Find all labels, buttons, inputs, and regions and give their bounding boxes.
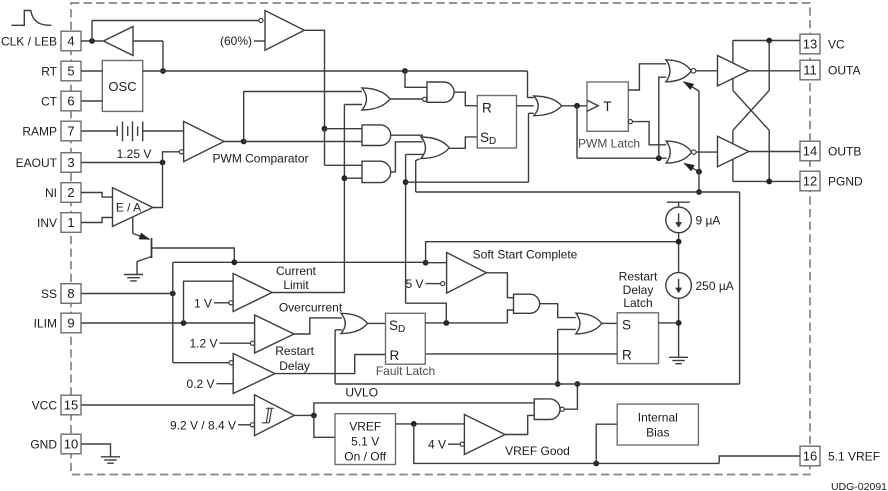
wire 60% to AND2 [325, 128, 363, 130]
supply bar 9uA [667, 201, 690, 203]
wire GND pin [81, 444, 111, 457]
clock mark of T latch [587, 100, 598, 111]
svg-text:E / A: E / A [116, 201, 141, 215]
svg-text:2: 2 [67, 185, 74, 200]
wire 1.2V stub [220, 342, 251, 344]
svg-text:ILIM: ILIM [34, 316, 57, 330]
svg-text:11: 11 [803, 63, 817, 78]
svg-text:Current: Current [276, 264, 317, 278]
svg-text:RAMP: RAMP [22, 124, 57, 138]
node UVLO junction [311, 413, 317, 419]
node disable junction [696, 169, 702, 175]
svg-text:PGND: PGND [828, 174, 863, 188]
wire inverter input [133, 40, 163, 42]
node SS junction [170, 291, 176, 297]
svg-text:VCC: VCC [32, 398, 58, 412]
wire RT to OSC [81, 70, 102, 72]
wire UVLO to OR4 [335, 329, 342, 331]
wire fault to OR3 bottom [529, 112, 534, 114]
transistor Q-clamp base bar [151, 238, 153, 258]
wire 9.2V stub [238, 424, 250, 426]
svg-text:0.2 V: 0.2 V [186, 377, 214, 391]
svg-text:VC: VC [828, 37, 845, 51]
svg-text:PWM Latch: PWM Latch [578, 136, 640, 150]
pin 5 (RT) [61, 61, 81, 81]
svg-text:250 µA: 250 µA [696, 279, 734, 293]
pin 16 (5.1 VREF) [800, 446, 820, 466]
node CL branch to AND3 [342, 175, 348, 181]
ground (restart delay) [669, 356, 688, 358]
node toggle branch [574, 103, 580, 109]
wire RDL R input [425, 353, 617, 355]
wire AND2 output [391, 135, 423, 140]
wire clamp collector [152, 248, 235, 262]
wire 60% down [324, 129, 326, 166]
or-gate OR5 [576, 313, 602, 334]
latch U-FL (Fault Latch) [386, 313, 426, 364]
or-gate OR1 [362, 88, 390, 110]
comparator U-60 (60% dead-time) [265, 11, 304, 51]
bubble UVLO inverting input [250, 423, 254, 427]
svg-text:1.2 V: 1.2 V [189, 337, 217, 351]
svg-text:R: R [622, 347, 632, 362]
wire OUTB [749, 151, 800, 153]
pin 2 (NI) [61, 183, 81, 203]
wire SS pin [81, 293, 173, 295]
arrow clamp emitter [139, 233, 150, 239]
svg-text:Delay: Delay [279, 359, 310, 373]
node restart junction [676, 320, 682, 326]
svg-text:10: 10 [64, 437, 78, 452]
wire fault out up [406, 303, 447, 323]
comparator U-CL (Current Limit) [233, 274, 272, 312]
node internal bias junction [593, 461, 599, 467]
svg-text:CLK / LEB: CLK / LEB [1, 34, 57, 48]
svg-text:R: R [482, 101, 492, 116]
pin 13 (VC) [800, 34, 820, 54]
svg-text:5 V: 5 V [405, 277, 423, 291]
svg-text:Delay: Delay [623, 283, 654, 297]
ground (E/A clamp) [124, 274, 143, 276]
pin 14 (OUTB) [800, 141, 820, 161]
latch U-RDL (Restart Delay Latch) [617, 313, 658, 364]
bubble SSC inverting input [441, 282, 445, 286]
clock waveform icon [12, 11, 52, 26]
nor-gate NOR2 [666, 141, 691, 163]
driver U-B [718, 136, 749, 167]
wire EA to clamp transistor [132, 217, 134, 233]
wire OC output [294, 318, 342, 334]
wire ILIM pin [81, 322, 255, 324]
svg-text:Internal: Internal [638, 411, 678, 425]
wire fault net horizontal [406, 181, 529, 183]
wire VC right drop [768, 41, 770, 91]
wire clamp emitter diagonal [133, 234, 150, 240]
svg-text:Restart: Restart [619, 270, 658, 284]
node VC junction [766, 38, 772, 44]
svg-text:CT: CT [41, 94, 58, 108]
bubble PWM inverting input [179, 150, 183, 154]
wire fault latch output [425, 322, 507, 324]
battery 1.25 V plates [116, 126, 118, 136]
wire OR5 output [602, 322, 618, 324]
driver U-A [718, 56, 749, 87]
wire VCC pin [81, 404, 255, 406]
svg-text:RT: RT [41, 64, 57, 78]
svg-text:6: 6 [67, 94, 74, 109]
bubble RD inverting input [229, 361, 233, 365]
svg-text:8: 8 [67, 286, 74, 301]
pin 8 (SS) [61, 284, 81, 304]
or-gate OR3 [534, 96, 562, 116]
wire driver A bottom [732, 78, 734, 90]
pin 4 (CLK / LEB) [61, 31, 81, 51]
wire clock to blank AND [405, 71, 427, 87]
wire UVLO output [294, 414, 314, 416]
svg-text:9 µA: 9 µA [696, 213, 721, 227]
svg-text:(60%): (60%) [220, 34, 252, 48]
wire T Qbar to NOR2 [633, 122, 667, 145]
wire PWM output to AND2 [244, 141, 362, 143]
nand-gate U-NAND [534, 399, 560, 420]
and-gate AND6 [514, 294, 540, 313]
wire fault bus riser [739, 192, 741, 384]
node clock branch [402, 68, 408, 74]
wire VC rail [733, 40, 800, 42]
op-amp U-EA (E / A) [113, 188, 153, 227]
ground (GND pin) [101, 456, 120, 458]
wire PGND rail [733, 180, 800, 182]
wire SS to 9uA [426, 242, 679, 263]
svg-text:Bias: Bias [646, 426, 669, 440]
svg-text:R: R [390, 348, 400, 363]
svg-text:VREF Good: VREF Good [505, 444, 570, 458]
or-gate OR4 [341, 313, 368, 333]
wire OR4 output [368, 322, 386, 324]
svg-text:Restart: Restart [275, 344, 314, 358]
current source I-250uA [666, 273, 692, 299]
wire disable vertical [698, 91, 700, 192]
wire SS upper run [173, 261, 426, 263]
svg-text:3: 3 [67, 155, 74, 170]
bubble OC inverting input [250, 341, 254, 345]
block Internal Bias [617, 404, 698, 445]
wire cross diag 1 [733, 91, 769, 131]
svg-text:OUTB: OUTB [828, 144, 861, 158]
pin 6 (CT) [61, 91, 81, 111]
wire CLK top run [92, 20, 259, 22]
comparator U-UVLO [255, 395, 295, 436]
flip-flop U-T (PWM Latch) [587, 82, 628, 131]
wire EAOUT [81, 162, 163, 164]
wire PGND right drop [768, 130, 770, 181]
wire PWM output up [244, 92, 362, 142]
wire OR2 output to S_D [449, 137, 477, 148]
svg-text:S: S [622, 317, 631, 332]
wire 250uA down [678, 298, 680, 357]
wire toggle down [576, 106, 578, 158]
svg-text:1 V: 1 V [194, 296, 212, 310]
wire CL to OR1 [344, 104, 362, 106]
wire T Q output [628, 64, 666, 90]
bubble 60% inverting input [259, 18, 263, 22]
wire fault latch out to AND6 [507, 310, 513, 323]
wire SS to RD comp [173, 362, 229, 364]
pin 15 (VCC) [61, 395, 81, 415]
wire AND3 output [391, 142, 423, 172]
wire UVLO to VREF box [314, 415, 335, 437]
svg-text:NI: NI [45, 186, 57, 200]
node PGND junction [766, 179, 772, 185]
pin 3 (EAOUT) [61, 153, 81, 173]
wire CL to AND3 [344, 177, 362, 179]
svg-text:12: 12 [803, 174, 817, 189]
comparator U-OC (Overcurrent) [255, 315, 294, 353]
hysteresis mark [262, 408, 274, 423]
svg-text:5.1 VREF: 5.1 VREF [828, 449, 880, 463]
svg-text:4 V: 4 V [428, 438, 446, 452]
svg-text:7: 7 [67, 124, 74, 139]
wire 4V stub [448, 443, 460, 445]
wire NAND output [564, 384, 577, 409]
wire EAOUT up to bubble [163, 152, 180, 163]
svg-text:1.25 V: 1.25 V [117, 147, 152, 161]
wire clamp to ground diagonal [137, 257, 152, 262]
node UVLO OR5 junction [555, 381, 561, 387]
node NAND out junction [575, 381, 581, 387]
wire INV input [81, 218, 113, 223]
wire OR3 output [562, 105, 587, 107]
svg-text:9: 9 [67, 316, 74, 331]
pin 9 (ILIM) [61, 313, 81, 333]
svg-text:UVLO: UVLO [345, 386, 378, 400]
wire PWM comp output [224, 141, 244, 143]
block VREF 5.1V On/Off [335, 414, 396, 465]
comparator U-RD (Restart Delay) [233, 354, 275, 394]
pin 1 (INV) [61, 213, 81, 233]
wire EA output up [153, 163, 163, 208]
svg-text:13: 13 [803, 37, 817, 52]
svg-text:1: 1 [67, 215, 74, 230]
wire NOR1 output [696, 70, 718, 72]
and-gate U-blank (with inverted input) [427, 82, 454, 102]
wire inverter input drop [162, 41, 164, 71]
wire 1V stub [214, 302, 229, 304]
wire OUTA [749, 70, 800, 72]
wire CL output [272, 105, 344, 293]
wire SS vertical [172, 262, 174, 362]
node disable to fault bus [696, 189, 702, 195]
arrow into NOR1 [684, 82, 700, 91]
arrow into NOR2 [684, 163, 699, 171]
svg-text:OUTA: OUTA [828, 63, 860, 77]
node VREF junction [411, 421, 417, 427]
wire to driver B top [732, 130, 734, 144]
wire PWM signal run [577, 157, 667, 159]
wire VREF output [396, 423, 465, 425]
svg-text:4: 4 [67, 34, 74, 49]
node SS comp junction [423, 260, 429, 266]
svg-text:On / Off: On / Off [344, 449, 386, 463]
wire SS to comp [426, 262, 447, 264]
svg-text:5: 5 [67, 64, 74, 79]
inverter U-clk (to CLK/LEB pin) [104, 27, 134, 56]
node fault net junction [403, 179, 409, 185]
wire SSC output [486, 273, 513, 298]
svg-text:Overcurrent: Overcurrent [279, 300, 343, 314]
node PWM signal branch [656, 155, 662, 161]
wire VG output [505, 415, 534, 434]
wire AND6 output [540, 304, 576, 318]
wire (60%) stub [254, 40, 265, 42]
wire 5.1V run [414, 424, 719, 464]
wire latch output [517, 105, 534, 107]
wire pin4 to inverter [81, 40, 103, 42]
wire OSC clock run [143, 70, 405, 72]
wire NI input [81, 193, 113, 198]
svg-text:9.2 V / 8.4 V: 9.2 V / 8.4 V [170, 418, 236, 432]
wire blank AND output to R [454, 92, 477, 106]
current source I-9uA [666, 207, 692, 233]
wire VC left drop [732, 41, 734, 64]
node 9uA junction [676, 239, 682, 245]
wire CLK up [91, 21, 93, 42]
wire cross diag 2 [733, 91, 769, 131]
wire RDL S output [659, 322, 679, 324]
and-gate AND3 [362, 161, 391, 182]
node EAOUT junction [160, 160, 166, 166]
svg-text:15: 15 [64, 398, 78, 413]
pin 12 (PGND) [800, 171, 820, 191]
latch U-RS (R / S_D) [477, 96, 516, 149]
pin 7 (RAMP) [61, 121, 81, 141]
node CLK junction [89, 38, 95, 44]
wire fault net vertical (OR2 input) [405, 154, 407, 303]
svg-text:GND: GND [30, 437, 57, 451]
svg-text:16: 16 [803, 449, 817, 464]
wire 60% output [304, 30, 324, 128]
oscillator OSC box [102, 61, 142, 112]
pin 10 (GND) [61, 434, 81, 454]
bubble T Qbar [628, 120, 632, 124]
svg-text:Limit: Limit [283, 278, 309, 292]
wire 0.2V stub [217, 383, 234, 385]
svg-text:PWM Comparator: PWM Comparator [212, 151, 308, 165]
wire ILIM up to current limit comp [184, 281, 234, 323]
nor-gate NOR1 [666, 60, 691, 82]
wire UVLO to OR5 [558, 328, 576, 330]
wire NOR2 output [696, 151, 717, 153]
wire clamp ground drop [136, 262, 138, 275]
wire RD output [275, 355, 386, 374]
wire OR2 fourth input stub [416, 159, 420, 192]
wire 5.1V to pin16 [719, 456, 800, 463]
svg-text:EAOUT: EAOUT [16, 156, 58, 170]
bubble blanking AND inverted input [423, 97, 427, 101]
bubble CL inverting input [229, 301, 233, 305]
wire 5V stub [426, 283, 441, 285]
wire 60% to AND3 [325, 164, 363, 166]
svg-text:Fault Latch: Fault Latch [376, 364, 435, 378]
wire battery to PWM comparator [143, 130, 184, 132]
svg-text:14: 14 [803, 144, 817, 159]
svg-text:UDG-02091: UDG-02091 [831, 481, 887, 491]
node fault latch out junction [443, 320, 449, 326]
node 60% branch [322, 126, 328, 132]
node SS clamp junction [231, 259, 237, 265]
wire OR2 third input [406, 153, 424, 155]
node OSC output junction [160, 68, 166, 74]
svg-text:SS: SS [41, 287, 57, 301]
node ILIM junction [181, 320, 187, 326]
svg-text:T: T [603, 99, 611, 114]
bubble VG inverting input [460, 442, 464, 446]
wire UVLO top run [314, 403, 534, 416]
wire CT to OSC [81, 100, 102, 102]
svg-text:INV: INV [37, 216, 57, 230]
wire to internal bias [596, 424, 617, 463]
wire clock down to OR3 [528, 71, 534, 98]
wire RAMP to battery [81, 130, 117, 132]
and-gate AND2 [362, 125, 391, 146]
comparator U-PWM [184, 121, 224, 161]
wire clock run right [405, 70, 528, 72]
svg-text:VREF: VREF [349, 419, 381, 433]
svg-text:5.1 V: 5.1 V [351, 434, 379, 448]
svg-text:Soft Start Complete: Soft Start Complete [473, 248, 578, 262]
wire driver B bottom [732, 159, 734, 181]
wire OR1 output [389, 98, 422, 100]
wire PWM signal up to NOR1 [659, 77, 667, 158]
svg-text:OSC: OSC [108, 79, 136, 94]
wire fault bus [335, 383, 739, 385]
svg-text:Latch: Latch [623, 296, 652, 310]
or-gate OR2 (S_D gate) [421, 137, 449, 159]
node PWM output branch [241, 139, 247, 145]
comparator U-VG (VREF Good) [464, 415, 505, 455]
wire disable bus [416, 191, 740, 193]
comparator U-SSC (Soft Start Complete) [447, 253, 487, 294]
pin 11 (OUTA) [800, 60, 820, 80]
wire 9uA to SS node [678, 233, 680, 273]
